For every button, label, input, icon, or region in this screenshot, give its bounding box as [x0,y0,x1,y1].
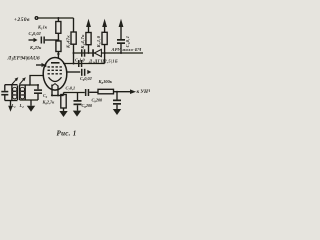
input arrow [8,101,13,112]
wire AGC line [73,52,143,54]
capacitor C3 [29,37,59,44]
wire heater lead [57,86,59,96]
wire screen branch [66,71,80,73]
wire cathode lead [51,85,53,96]
resistor R2 [56,41,61,52]
wire R4 bottom lead [88,45,90,53]
capacitor C screen [81,69,85,76]
output arrow [130,89,136,94]
junction C6-AGC [120,52,122,54]
resistor R8 [98,89,114,94]
power arrow R5 [102,19,107,33]
capacitor C8 [74,93,82,111]
tube cathode [49,77,62,81]
svg-text:АРУ мало-БЧ: АРУ мало-БЧ [111,47,142,52]
junction R3-AGC [73,52,75,54]
node +250v terminal [35,17,38,20]
arrow screen out [87,70,91,74]
wire tank1 top bus [5,84,18,86]
capacitor C9 [113,92,121,109]
tube grid 3 [48,73,63,75]
wire top rail [38,17,73,19]
wire R1-R2 [57,33,59,41]
junction C9 [116,91,118,93]
wire audio row [64,93,85,96]
junction R1-rail [57,17,59,19]
wire anode row [63,63,105,65]
junction heater lead [57,94,59,96]
resistor R3 [71,32,76,44]
grid arrow [36,63,46,67]
wire R2 to anode [57,52,59,59]
inductor L2 [20,85,26,100]
wire grid to tank [30,76,43,90]
diode D1 [92,49,101,56]
capacitor C7 [85,89,98,96]
tuning arrow L2 [19,77,26,84]
svg-text:+250в: +250в [14,17,30,23]
tube grid 1 [48,66,63,68]
wire R3 bottom lead [73,44,75,63]
capacitor C1 [1,85,8,101]
svg-text:Рис. 1: Рис. 1 [57,130,77,138]
wire tank1 bottom bus [5,100,18,102]
wire tank2 bottom bus [20,99,38,101]
tuning arrow L1 [12,77,18,84]
junction C3-R2 [57,39,59,41]
junction cathode lead [51,94,53,96]
wire R5 bottom lead [104,45,106,54]
junction R4-AGC [88,52,90,54]
ground C8 [73,111,81,117]
junction anode dot [57,53,59,55]
wire tank2 top bus [20,84,31,86]
capacitor C on anode row [78,60,82,67]
resistor R6 [61,95,66,112]
svg-text:к УНЧ: к УНЧ [137,89,151,95]
capacitor C6 [117,39,125,53]
tube grid 2 [48,69,63,71]
ground R6 [59,111,67,117]
wire to output [114,91,131,93]
wire R1 top lead [57,18,59,22]
inductor L1 [12,85,18,101]
wire R3 top lead [73,18,75,32]
wire riser to AGC [104,53,106,64]
capacitor C5 [81,49,85,56]
ground tank [27,100,35,112]
junction R3-anode row [73,63,75,65]
tube anode plate [51,62,60,64]
tube heater [52,84,59,87]
resistor R4 [86,33,91,45]
power arrow C6 [119,19,124,39]
power arrow R4 [86,19,91,33]
capacitor C2 [34,89,42,100]
resistor R1 [56,22,61,34]
wire cathode bus [52,95,64,97]
ground C9 [113,109,121,115]
tube V1 envelope [43,58,67,91]
resistor R5 [102,32,107,44]
junction grid-tank [37,84,39,86]
junction R5-AGC [104,52,106,54]
